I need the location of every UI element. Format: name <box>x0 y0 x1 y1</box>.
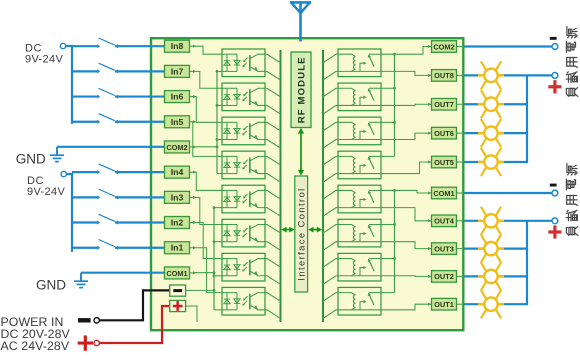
wire minus pad to internal bus <box>190 289 214 291</box>
lamp load LP1 <box>478 61 504 89</box>
svg-text:OUT4: OUT4 <box>434 217 455 226</box>
wire opto U7 pin to left bus <box>265 276 281 285</box>
wire relay K7 to OUT2 <box>381 275 432 278</box>
wire COM1 to load supply minus <box>465 192 553 194</box>
node OUT7 (output terminal label) <box>428 98 462 110</box>
optocoupler U4 <box>222 151 265 179</box>
wire switch feed row In2 <box>72 221 97 223</box>
wire load bus 1 <box>526 75 528 162</box>
node OUT3 (output terminal label) <box>428 243 462 255</box>
switch S-In6 <box>99 88 115 95</box>
lamp load LP3 <box>478 119 504 147</box>
wire opto U6 pin to left bus <box>265 225 281 234</box>
wire switch to In7 label <box>115 70 165 72</box>
wire In2 to opto U7 <box>193 223 222 259</box>
power minus connector bar <box>78 318 91 322</box>
wire COM1 internal bus <box>193 206 222 310</box>
svg-text:In3: In3 <box>171 192 184 202</box>
switch S-In3 <box>99 189 115 196</box>
wire DC1 feed <box>66 45 72 47</box>
node OUT2 (output terminal label) <box>428 271 462 283</box>
wire right bus to relay K5 pin <box>323 190 338 199</box>
relay K5 <box>338 185 381 213</box>
node OUT4 terminal <box>552 218 558 224</box>
load supply 2 minus mark <box>550 184 557 187</box>
wire switch to In2 label <box>115 221 165 223</box>
node internal bus right (relay drives) <box>322 50 324 322</box>
svg-text:AC 24V-28V: AC 24V-28V <box>1 339 70 353</box>
node OUT4 (output terminal label) <box>428 215 462 227</box>
wire In7 to opto U2 <box>193 71 222 88</box>
optocoupler U5 <box>222 185 265 213</box>
node COM1 (output terminal label) <box>428 187 462 199</box>
svg-text:GND: GND <box>16 151 46 166</box>
load supply 1 plus mark <box>548 85 561 88</box>
wire right bus to relay K1 pin <box>323 71 338 80</box>
module body U0 (main enclosure) <box>151 38 463 330</box>
wire RF module to interface control (double arrow) <box>298 128 304 176</box>
node OUT8 terminal <box>552 72 558 78</box>
wire opto U3 pin to left bus <box>265 122 281 131</box>
wire relay K3 to OUT6 <box>381 133 432 139</box>
wire switch feed row In5 <box>72 121 97 123</box>
optocoupler U3 <box>222 117 265 145</box>
lamp load LP7 <box>478 262 504 290</box>
wire In4 to opto U5 <box>193 172 222 190</box>
wire relay K5 to OUT4 <box>381 208 432 221</box>
switch S-In2 <box>99 214 115 221</box>
relay K4 <box>338 151 381 179</box>
wire OUT1 to load bus 2 <box>465 303 529 305</box>
svg-text:In8: In8 <box>171 41 184 51</box>
wire switch to In8 label <box>115 45 165 47</box>
wire OUT4 to load supply plus <box>465 220 553 222</box>
wire power minus (black) <box>99 290 169 320</box>
switch S-In1 <box>99 240 115 247</box>
node In5 (input terminal label) <box>165 116 197 128</box>
wire plus pad internal <box>190 306 197 322</box>
wire switch feed row In6 <box>72 95 97 97</box>
lamp load LP6 <box>478 235 504 263</box>
wire switch feed row In3 <box>72 196 97 198</box>
wire switch to In3 label <box>115 196 165 198</box>
optocoupler U7 <box>222 253 265 281</box>
wire right bus to relay K8 pin <box>323 293 338 302</box>
optocoupler U6 <box>222 219 265 247</box>
wire opto U8 pin to left bus <box>265 310 281 319</box>
lamp load LP8 <box>478 290 504 318</box>
load supply 1 minus mark <box>550 37 557 40</box>
node In1 (input terminal label) <box>165 242 197 254</box>
wire switch feed row In1 <box>72 247 97 249</box>
relay K8 <box>338 287 381 315</box>
node COM1 terminal <box>552 190 558 196</box>
power minus input pad <box>170 285 190 296</box>
node COM2 terminal <box>552 44 558 50</box>
node OUT8 (output terminal label) <box>428 70 462 82</box>
wire right bus to relay K6 pin <box>323 242 338 251</box>
wire opto U1 pin to left bus <box>265 71 281 80</box>
svg-text:RF MODULE: RF MODULE <box>296 56 307 123</box>
switch S-In7 <box>99 63 115 70</box>
wire switch to In5 label <box>115 121 165 123</box>
svg-text:COM1: COM1 <box>166 269 187 278</box>
wire opto U7 pin to left bus <box>265 259 281 268</box>
node power plus terminal <box>94 340 99 345</box>
wire opto U3 pin to left bus <box>265 140 281 149</box>
wire COM2 right collector <box>381 47 432 157</box>
wire right bus to relay K7 pin <box>323 259 338 268</box>
wire right bus to relay K7 pin <box>323 276 338 285</box>
wire COM1 to ground <box>81 272 165 274</box>
lamp load LP4 <box>478 148 504 176</box>
optocoupler U2 <box>222 83 265 111</box>
wire right bus to relay K4 pin <box>323 174 338 183</box>
relay K1 <box>338 49 381 77</box>
wire COM1 right collector <box>381 189 432 293</box>
switch S-In5 <box>99 114 115 121</box>
svg-text:9V-24V: 9V-24V <box>27 186 65 198</box>
load supply 2 plus mark <box>548 230 561 233</box>
svg-text:9V-24V: 9V-24V <box>25 54 63 66</box>
wire right bus to relay K3 pin <box>323 140 338 149</box>
wire switch feed row In7 <box>72 70 97 72</box>
wire relay K2 to OUT7 <box>381 104 432 105</box>
relay K2 <box>338 83 381 111</box>
wire right bus to relay K2 pin <box>323 105 338 114</box>
wire switch to In4 label <box>115 171 165 173</box>
ground GND1 <box>50 147 64 162</box>
wire COM2 to ground <box>57 146 165 148</box>
wire right bus to relay K8 pin <box>323 310 338 319</box>
wire power plus (red) <box>99 306 169 343</box>
wire In6 to opto U3 <box>193 97 222 123</box>
svg-text:Interface Control: Interface Control <box>296 187 306 280</box>
wire right bus to relay K2 pin <box>323 88 338 97</box>
node COM2 (input terminal label) <box>165 141 197 153</box>
svg-text:In7: In7 <box>171 66 184 76</box>
svg-text:COM2: COM2 <box>166 143 187 152</box>
wire switch to In1 label <box>115 247 165 249</box>
node In7 (input terminal label) <box>165 65 197 77</box>
wire right bus to relay K6 pin <box>323 225 338 234</box>
svg-text:COM2: COM2 <box>433 42 454 51</box>
svg-text:OUT5: OUT5 <box>434 158 454 167</box>
optocoupler U8 <box>222 287 265 315</box>
wire right bus to relay K4 pin <box>323 156 338 165</box>
node DC supply terminal 2 <box>61 171 66 176</box>
wire opto U5 pin to left bus <box>265 190 281 199</box>
wire interface control to right bus (double arrow) <box>308 227 322 233</box>
wire relay K4 to OUT5 <box>381 162 432 174</box>
power plus input pad <box>170 300 190 311</box>
svg-text:OUT1: OUT1 <box>434 300 454 309</box>
node OUT1 (output terminal label) <box>428 298 462 310</box>
wire opto U6 pin to left bus <box>265 242 281 251</box>
wire opto U4 pin to left bus <box>265 174 281 183</box>
wire In5 to opto U4 <box>193 122 222 157</box>
lamp load LP2 <box>478 90 504 118</box>
wire In8 to opto U1 <box>193 46 222 54</box>
relay K6 <box>338 219 381 247</box>
ground GND2 <box>74 273 88 288</box>
wire OUT7 to load bus 1 <box>465 103 529 105</box>
wire switch feed row In8 <box>72 45 97 47</box>
wire switch to In6 label <box>115 95 165 97</box>
RF module block U9 <box>291 52 311 128</box>
lamp load LP5 <box>478 207 504 235</box>
svg-text:In4: In4 <box>171 167 184 177</box>
svg-text:In6: In6 <box>171 92 184 102</box>
wire OUT5 to load bus 1 <box>465 161 529 163</box>
svg-text:OUT3: OUT3 <box>434 244 454 253</box>
wire right bus to relay K1 pin <box>323 54 338 63</box>
wire switch feed row In4 <box>72 171 97 173</box>
wire opto U4 pin to left bus <box>265 156 281 165</box>
wire In3 to opto U6 <box>193 197 222 224</box>
relay K3 <box>338 117 381 145</box>
antenna ANT1 <box>290 2 311 42</box>
wire right bus to relay K5 pin <box>323 208 338 217</box>
wire DC1 bus <box>71 45 73 124</box>
node internal bus left (opto outputs) <box>280 50 282 322</box>
svg-text:OUT8: OUT8 <box>434 71 454 80</box>
svg-text:OUT2: OUT2 <box>434 272 454 281</box>
power plus mark <box>78 342 93 345</box>
svg-text:OUT6: OUT6 <box>434 129 454 138</box>
node In4 (input terminal label) <box>165 166 197 178</box>
wire OUT6 to load bus 1 <box>465 132 529 134</box>
wire COM2 internal bus <box>193 70 222 174</box>
node COM1 (input terminal label) <box>165 267 197 279</box>
wire relay K6 to OUT3 <box>381 242 432 249</box>
node In8 (input terminal label) <box>165 40 197 52</box>
wire OUT3 to load bus 2 <box>465 248 529 250</box>
svg-text:GND: GND <box>36 278 66 293</box>
node In2 (input terminal label) <box>165 217 197 229</box>
wire DC2 feed <box>66 173 72 175</box>
node In6 (input terminal label) <box>165 91 197 103</box>
wire opto U2 pin to left bus <box>265 105 281 114</box>
wire COM2 to load supply minus <box>465 45 553 47</box>
interface control block U10 <box>295 176 308 292</box>
svg-text:In1: In1 <box>171 243 184 253</box>
label load power supply text 2 (vertical CJK) <box>566 163 578 235</box>
wire interface control to left bus (double arrow) <box>281 227 294 233</box>
optocoupler U1 <box>222 49 265 77</box>
svg-text:In5: In5 <box>171 117 184 127</box>
node DC supply terminal 1 <box>60 43 65 48</box>
wire In1 to opto U8 <box>193 248 222 293</box>
node OUT5 (output terminal label) <box>428 156 462 168</box>
svg-text:OUT7: OUT7 <box>434 100 454 109</box>
node OUT6 (output terminal label) <box>428 127 462 139</box>
wire DC2 bus <box>71 173 73 252</box>
node COM2 (output terminal label) <box>428 41 462 53</box>
wire OUT8 to load supply plus <box>465 74 553 76</box>
wire relay K8 to OUT1 <box>381 304 432 310</box>
switch S-In4 <box>99 164 115 171</box>
wire opto U5 pin to left bus <box>265 208 281 217</box>
wire opto U8 pin to left bus <box>265 293 281 302</box>
wire opto U1 pin to left bus <box>265 54 281 63</box>
label load power supply text 1 (vertical CJK) <box>566 26 578 96</box>
svg-text:COM1: COM1 <box>433 189 454 198</box>
wire load bus 2 <box>526 221 528 304</box>
svg-text:In2: In2 <box>171 218 184 228</box>
switch S-In8 <box>99 38 115 45</box>
wire right bus to relay K3 pin <box>323 122 338 131</box>
relay K7 <box>338 253 381 281</box>
wire opto U2 pin to left bus <box>265 88 281 97</box>
node power minus terminal <box>94 318 99 323</box>
wire relay K1 to OUT8 <box>381 71 432 75</box>
node In3 (input terminal label) <box>165 191 197 203</box>
wire OUT2 to load bus 2 <box>465 275 529 277</box>
